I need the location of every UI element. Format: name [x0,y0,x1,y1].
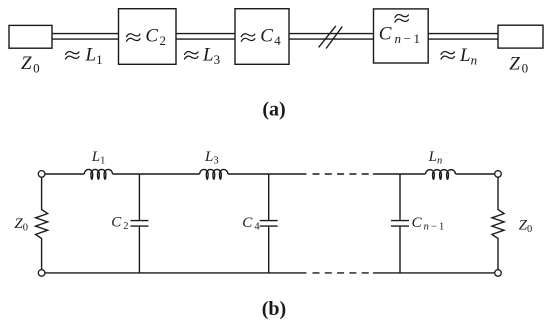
label approx above Cn-1 [395,15,409,23]
inductor Ln [426,170,456,180]
top wire segment 4 [373,173,426,175]
box Cn-1 [374,9,429,63]
port Z0 right box [498,25,543,48]
capacitor C4 branch upper wire [268,174,270,220]
box C2 [119,9,177,65]
port Z0 left box [9,25,52,48]
capacitor Cn-1 branch lower wire [399,227,401,273]
resistor Z0 left with vertical wires [36,177,48,269]
top wire segment 5 [456,173,495,175]
svg-text:(a): (a) [262,99,285,121]
terminal bottom-left [38,270,45,277]
terminal top-right [495,171,502,178]
inductor L3 [200,169,228,179]
bottom wire segment 1 [45,272,307,274]
terminal bottom-right [495,270,502,277]
line break symbol (double slash) [319,26,343,49]
transmission line L3 (double line) [176,34,235,40]
svg-text:(b): (b) [262,298,286,320]
capacitor C4 plates [260,221,278,227]
capacitor C2 plates [130,221,148,227]
top wire segment 2 [113,173,200,175]
resistor Z0 right with vertical wires [492,177,504,269]
capacitor C2 branch lower wire [138,227,140,273]
transmission line to Cn-1 (double line) [289,34,374,40]
inductor L1 [84,169,112,179]
transmission line L1 (double line) [52,34,119,40]
top wire dashed section [313,173,369,175]
bottom wire segment 2 [373,272,495,274]
label approx L1 [66,52,80,60]
label approx Ln [441,52,455,60]
label approx C4 [241,34,255,42]
capacitor Cn-1 branch upper wire [399,174,401,220]
top wire segment 3 [228,173,307,175]
label approx C2 [127,34,141,42]
capacitor Cn-1 plates [391,221,409,227]
box C4 [235,9,289,65]
top wire segment 1 [45,173,84,175]
transmission line Ln (double line) [428,34,498,40]
terminal top-left [38,171,45,178]
label approx L3 [185,52,199,60]
capacitor C4 branch lower wire [268,227,270,273]
capacitor C2 branch upper wire [138,174,140,220]
bottom wire dashed section [313,272,369,274]
